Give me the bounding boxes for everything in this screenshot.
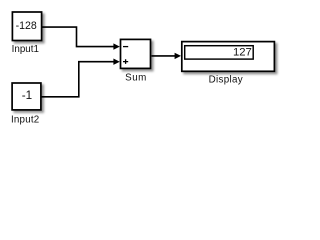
svg-text:Sum: Sum bbox=[125, 73, 147, 84]
sum sign minus (port 1) bbox=[123, 46, 128, 48]
svg-text:-1: -1 bbox=[22, 89, 32, 102]
wire Sum to Display bbox=[152, 55, 176, 57]
constant block Input2 bbox=[12, 83, 41, 110]
arrowhead into Sum port 2 bbox=[113, 59, 119, 65]
wire Input2 to Sum bbox=[41, 62, 114, 97]
svg-text:127: 127 bbox=[233, 46, 252, 58]
constant block Input1 bbox=[12, 12, 41, 41]
display inner readout box bbox=[185, 46, 254, 59]
wire Input1 to Sum bbox=[42, 27, 115, 46]
svg-text:Input1: Input1 bbox=[12, 44, 39, 55]
arrowhead into Sum port 1 bbox=[113, 43, 119, 49]
svg-text:Input2: Input2 bbox=[11, 114, 39, 125]
arrowhead into Display bbox=[175, 53, 181, 59]
display block Display (outer) bbox=[182, 42, 275, 72]
svg-text:Display: Display bbox=[209, 74, 243, 85]
sum block Sum bbox=[121, 39, 151, 68]
svg-text:-128: -128 bbox=[16, 20, 37, 32]
sum sign plus (port 2) bbox=[123, 59, 128, 64]
